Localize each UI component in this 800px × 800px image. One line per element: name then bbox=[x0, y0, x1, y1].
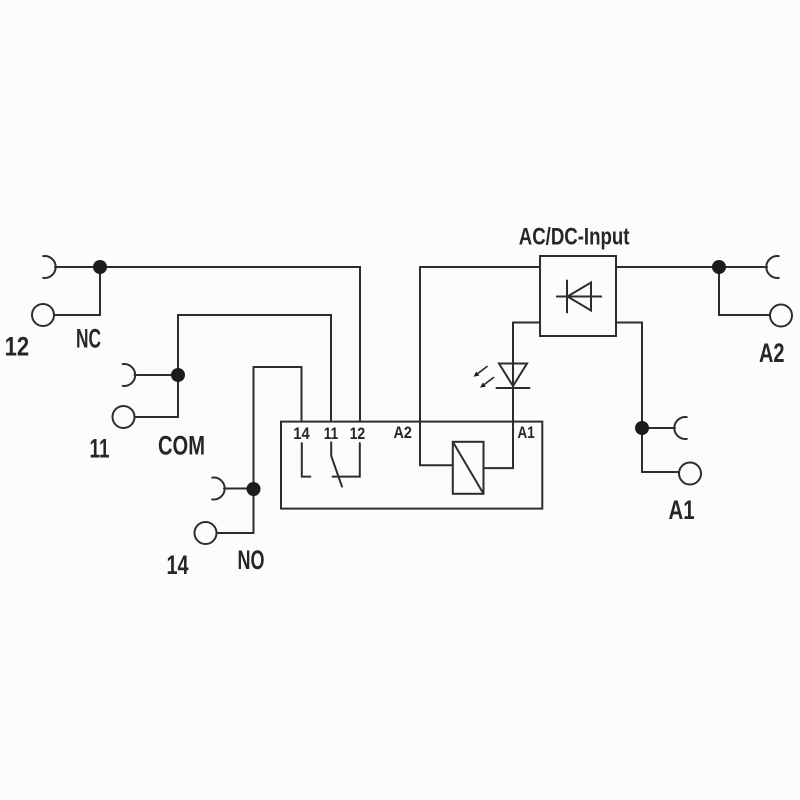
terminal socket arc A1 (right) bbox=[674, 417, 686, 439]
bridge diode horizontal lead bbox=[557, 296, 601, 298]
terminal circle A2 bbox=[770, 305, 792, 327]
wire A2 node down to circle bbox=[719, 267, 770, 315]
LED cathode bar bbox=[497, 387, 530, 389]
wire arc11 to node bbox=[135, 374, 179, 376]
wire bridge right-top to A2 terminal bbox=[616, 266, 767, 268]
wire A1 node to arc bbox=[642, 427, 675, 429]
svg-text:A1: A1 bbox=[518, 423, 535, 442]
terminal socket arc A2 (right) bbox=[766, 256, 778, 278]
svg-text:12: 12 bbox=[5, 332, 30, 362]
wire arc14 to node bbox=[224, 488, 254, 490]
AC/DC input bridge box bbox=[540, 256, 616, 336]
junction dot COM bbox=[171, 368, 185, 382]
wire A1 node down to circle bbox=[642, 471, 679, 473]
junction dot A1 bbox=[635, 421, 649, 435]
relay outline box bbox=[281, 422, 542, 509]
bridge diode cathode bar bbox=[566, 281, 568, 313]
LED triangle bbox=[499, 364, 527, 387]
svg-text:COM: COM bbox=[158, 431, 205, 461]
contact pin 12 fixed foot bbox=[333, 443, 360, 477]
LED arrowhead 2 bbox=[480, 383, 486, 388]
svg-text:AC/DC-Input: AC/DC-Input bbox=[519, 224, 630, 251]
svg-text:12: 12 bbox=[350, 424, 366, 443]
wire LED branch to bridge left-low bbox=[513, 322, 540, 324]
terminal socket arc 12 (NC row) bbox=[43, 256, 55, 278]
contact pin 14 inside relay bbox=[302, 443, 311, 477]
wire arc12 to node bbox=[55, 266, 100, 268]
wire coil to A1 pin bbox=[484, 467, 514, 469]
svg-text:NO: NO bbox=[238, 545, 265, 575]
wire node down to circle 12 bbox=[54, 267, 100, 315]
terminal socket arc 14 (NO row) bbox=[212, 478, 224, 500]
wire NO node down to circle 14 bbox=[217, 489, 254, 534]
svg-text:A2: A2 bbox=[759, 338, 785, 368]
LED arrow 1 bbox=[479, 367, 488, 374]
wire COM node up and to relay pin 11 bbox=[178, 315, 331, 422]
wire A1 pin / LED branch bbox=[512, 323, 514, 469]
terminal circle 12 bbox=[32, 304, 54, 326]
terminal socket arc 11 (COM row) bbox=[123, 364, 135, 386]
svg-text:NC: NC bbox=[76, 324, 101, 354]
LED arrowhead 1 bbox=[474, 372, 480, 377]
terminal circle 14 bbox=[195, 522, 217, 544]
bridge diode triangle bbox=[568, 283, 592, 311]
contact pin 11 with movable arm bbox=[331, 442, 342, 486]
svg-text:A1: A1 bbox=[669, 495, 695, 525]
wire A2 pin into coil bbox=[420, 267, 453, 465]
junction dot NO bbox=[247, 482, 261, 496]
svg-text:14: 14 bbox=[293, 424, 310, 443]
wire bridge left-top to relay A2 bbox=[420, 266, 540, 268]
junction dot A2 bbox=[712, 260, 726, 274]
LED arrow 2 bbox=[485, 378, 494, 385]
wire NO node up and to relay pin 14 bbox=[254, 367, 302, 489]
svg-text:A2: A2 bbox=[394, 423, 412, 442]
relay coil diagonal bbox=[453, 442, 484, 494]
wire bridge right-low to A1 net bbox=[616, 323, 642, 473]
terminal circle A1 bbox=[679, 463, 701, 485]
svg-text:11: 11 bbox=[90, 434, 110, 464]
svg-text:14: 14 bbox=[167, 550, 189, 580]
junction dot NC bbox=[93, 260, 107, 274]
relay coil box bbox=[453, 442, 484, 494]
terminal circle 11 bbox=[113, 406, 135, 428]
svg-text:11: 11 bbox=[324, 424, 338, 443]
wire NC top rail to relay pin 12 bbox=[100, 267, 360, 422]
wire COM node down to circle 11 bbox=[135, 375, 179, 417]
